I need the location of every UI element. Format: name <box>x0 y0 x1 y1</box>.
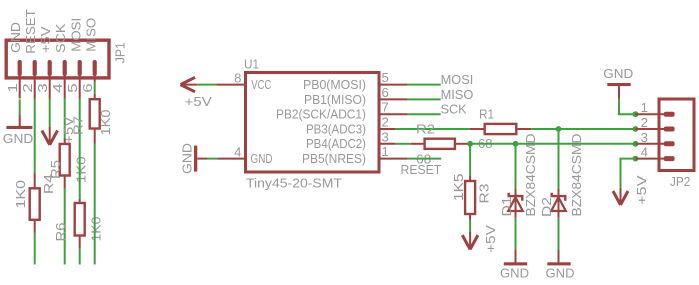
U1 pin 2 stub <box>379 128 395 130</box>
svg-text:6: 6 <box>382 85 389 100</box>
resistor R3 top stub <box>469 175 471 181</box>
op IC U1 box <box>246 73 380 173</box>
U1 pin 1 stub <box>379 158 408 160</box>
JP2 pad pin 2 <box>664 127 675 132</box>
svg-text:JP1: JP1 <box>112 42 127 63</box>
resistor R5 bottom stub <box>64 176 66 189</box>
svg-text:+5V: +5V <box>38 26 53 53</box>
JP2 pin 4 stub <box>636 158 667 160</box>
wire MOSI net from JP1 pin5 <box>79 99 81 200</box>
wire RESET net at U1 pin1 <box>408 158 441 160</box>
resistor R3 body <box>465 181 475 214</box>
wire branch down to D2 <box>558 129 560 188</box>
resistor R4 bottom stub <box>34 220 36 233</box>
ground symbol pin under JP1 pin1 <box>19 114 21 126</box>
JP1 pad pin 3 <box>48 60 52 76</box>
svg-text:1K0: 1K0 <box>74 157 89 184</box>
junction dot row2 at D2 <box>556 126 562 132</box>
JP2 pin 1 stub <box>636 113 667 115</box>
svg-text:+5V: +5V <box>483 225 498 253</box>
junction dot at JP2 pin2 <box>633 126 639 132</box>
wire RESET net below R4 <box>34 233 36 265</box>
svg-text:5: 5 <box>65 83 80 93</box>
svg-text:BZX84CSMD: BZX84CSMD <box>569 134 584 217</box>
JP1 pin 1 stub <box>19 68 21 99</box>
svg-text:GND: GND <box>546 266 575 281</box>
svg-text:RESET: RESET <box>401 162 442 177</box>
JP2 pad pin 4 <box>664 156 675 161</box>
resistor R6 bottom stub <box>79 236 81 249</box>
svg-text:3: 3 <box>641 130 648 145</box>
svg-text:MOSI: MOSI <box>68 18 83 52</box>
svg-text:PB4(ADC2): PB4(ADC2) <box>306 136 366 151</box>
resistor R1 right stub <box>516 128 531 130</box>
svg-text:2: 2 <box>382 115 389 130</box>
wire branch down to D1 <box>515 144 517 189</box>
junction dot at JP2 pin1 <box>633 111 639 117</box>
U1 pin 3 stub <box>379 143 395 145</box>
wire SCK net below R5 <box>64 188 66 265</box>
JP2 pad pin 1 <box>664 112 675 117</box>
resistor R5 body <box>60 144 70 176</box>
svg-text:1: 1 <box>382 144 389 159</box>
wire SCK net <box>408 113 441 115</box>
svg-text:MOSI: MOSI <box>441 72 474 87</box>
svg-text:1K0: 1K0 <box>13 180 28 209</box>
wire MISO net from JP1 pin6 <box>94 82 96 94</box>
wire MISO net below R7 <box>94 144 96 265</box>
connector JP1 <box>6 40 109 78</box>
wire net row2 to JP2 pin2 <box>531 128 635 130</box>
resistor R4 top stub <box>34 174 36 189</box>
svg-text:4: 4 <box>50 83 65 93</box>
resistor R7 body <box>90 99 100 128</box>
svg-text:1: 1 <box>5 83 20 93</box>
svg-text:R6: R6 <box>53 223 68 242</box>
svg-text:PB5(NRES): PB5(NRES) <box>302 151 366 166</box>
wire RESET net from JP1 pin2 <box>34 99 36 174</box>
resistor R6 body <box>75 203 85 236</box>
svg-text:PB1(MISO): PB1(MISO) <box>304 92 366 107</box>
wire branch down to R3 <box>469 144 471 175</box>
wire MISO net <box>408 98 441 100</box>
svg-text:R3: R3 <box>476 184 491 204</box>
junction dot row3 at R3 <box>467 141 473 147</box>
svg-text:7: 7 <box>382 100 389 115</box>
U1 pin 7 stub <box>379 113 408 115</box>
wire GND net from JP1 pin1 <box>19 100 21 115</box>
resistor R2 body <box>425 139 455 149</box>
svg-text:PB0(MOSI): PB0(MOSI) <box>303 77 366 92</box>
svg-text:3: 3 <box>35 83 50 93</box>
wire SCK net from JP1 pin4 <box>64 99 66 139</box>
junction dot at JP2 pin3 <box>633 141 639 147</box>
svg-text:+5V: +5V <box>185 94 212 109</box>
wire +5V net at U1 pin8 <box>197 84 217 86</box>
U1 pin 8 VCC stub <box>217 84 246 86</box>
resistor R5 top stub <box>64 139 66 145</box>
resistor R7 top stub <box>94 94 96 99</box>
svg-text:BZX84CSMD: BZX84CSMD <box>523 134 538 217</box>
resistor R7 bottom stub <box>94 129 96 144</box>
wire below D1 <box>515 218 517 250</box>
svg-text:MISO: MISO <box>83 18 98 52</box>
svg-text:GND: GND <box>3 131 34 146</box>
svg-text:GND: GND <box>180 143 195 174</box>
svg-text:VCC: VCC <box>251 77 271 92</box>
svg-text:PB2(SCK/ADC1): PB2(SCK/ADC1) <box>276 107 366 122</box>
resistor R1 left stub <box>470 128 485 130</box>
svg-text:D1: D1 <box>499 197 514 217</box>
JP1 pin 4 stub <box>64 68 66 99</box>
connector JP2 box <box>659 99 694 171</box>
JP1 pin 6 stub <box>94 68 96 82</box>
svg-text:1K5: 1K5 <box>451 174 466 202</box>
svg-text:GND: GND <box>603 66 633 81</box>
svg-text:R2: R2 <box>416 122 435 137</box>
svg-text:1K0: 1K0 <box>98 110 113 136</box>
junction dot at JP2 pin4 <box>633 156 639 162</box>
wire below D2 <box>558 218 560 250</box>
wire net row3 to JP2 pin3 <box>468 143 636 145</box>
wire +5V to JP2 pin4 <box>621 159 636 188</box>
svg-text:JP2: JP2 <box>670 174 690 189</box>
U1 pin 6 stub <box>379 98 408 100</box>
svg-text:MISO: MISO <box>441 87 474 102</box>
ground symbol bar under JP1 pin1 <box>6 126 32 129</box>
JP1 pin 5 stub <box>79 68 81 99</box>
JP2 pad pin 3 <box>664 141 675 146</box>
wire net row2 to R1 <box>395 128 469 130</box>
wire MOSI net <box>408 84 441 86</box>
svg-text:4: 4 <box>234 145 241 160</box>
svg-text:R1: R1 <box>479 107 494 122</box>
JP1 pad pin 4 <box>63 60 67 76</box>
svg-text:GND: GND <box>251 151 273 166</box>
U1 pin 4 GND stub <box>217 158 245 160</box>
svg-text:8: 8 <box>234 70 241 85</box>
svg-text:SCK: SCK <box>53 23 68 53</box>
svg-text:4: 4 <box>641 145 648 160</box>
wire GND net at U1 pin4 <box>207 158 217 160</box>
junction dot row3 at D1 <box>513 141 519 147</box>
JP1 pad pin 1 <box>18 60 22 76</box>
svg-text:R5: R5 <box>48 160 63 179</box>
+5V supply symbol under JP1 pin3 <box>42 127 58 145</box>
svg-text:U1: U1 <box>244 57 259 72</box>
U1 pin 5 stub <box>379 84 408 86</box>
ground symbol left of U1 pin4 <box>194 146 207 172</box>
JP1 pin 2 stub <box>34 68 36 99</box>
svg-text:GND: GND <box>8 22 23 53</box>
zener diode D1 <box>508 188 523 218</box>
svg-text:5: 5 <box>382 70 389 85</box>
JP1 pin 3 stub <box>49 68 51 99</box>
wire +5V net from JP1 pin3 <box>49 99 51 128</box>
resistor R2 left stub <box>411 143 425 145</box>
wire MOSI net below R6 <box>79 248 81 265</box>
ground symbol below D1 <box>504 250 527 265</box>
svg-text:RESET: RESET <box>23 9 38 54</box>
JP2 pin 3 stub <box>636 143 667 145</box>
resistor R4 body <box>30 188 40 220</box>
ground symbol below D2 <box>547 250 570 265</box>
resistor R2 right stub <box>455 143 468 145</box>
svg-text:D2: D2 <box>539 197 554 217</box>
svg-text:1K0: 1K0 <box>88 217 103 242</box>
resistor R6 top stub <box>79 199 81 203</box>
+5V supply symbol below JP2 pin4 <box>613 188 628 205</box>
svg-text:2: 2 <box>641 115 648 130</box>
svg-text:Tiny45-20-SMT: Tiny45-20-SMT <box>246 176 342 191</box>
svg-text:R7: R7 <box>71 116 86 135</box>
svg-text:2: 2 <box>20 83 35 93</box>
ground symbol above JP2 <box>607 83 630 99</box>
svg-text:+5V: +5V <box>634 175 649 205</box>
svg-text:3: 3 <box>382 129 389 144</box>
+5V supply symbol below R3 <box>462 232 478 250</box>
JP1 pad pin 5 <box>78 60 82 76</box>
zener diode D2 <box>551 188 566 218</box>
JP2 pin 2 stub <box>636 128 667 130</box>
wire below R3 <box>469 221 471 232</box>
+5V supply symbol left of U1 <box>181 77 198 91</box>
svg-text:PB3(ADC3): PB3(ADC3) <box>306 121 366 136</box>
svg-text:GND: GND <box>500 266 529 281</box>
resistor R1 body <box>485 124 517 134</box>
JP1 pad pin 6 <box>93 60 97 76</box>
svg-text:1: 1 <box>641 100 648 115</box>
JP1 pad pin 2 <box>33 60 37 76</box>
wire net row3 to R2 <box>395 143 410 145</box>
wire GND to JP2 pin1 <box>619 99 636 115</box>
resistor R3 bottom stub <box>469 214 471 221</box>
svg-text:6: 6 <box>80 83 95 93</box>
svg-text:SCK: SCK <box>441 102 467 117</box>
